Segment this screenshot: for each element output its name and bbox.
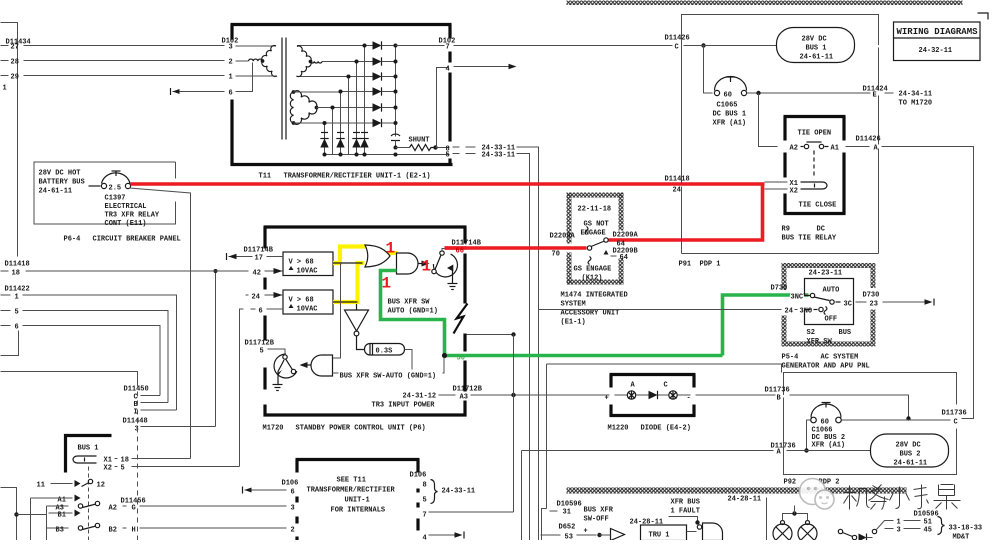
wire pin4 off-page arrow [454,66,512,68]
svg-text:24: 24 [252,294,260,302]
wire C1066 to pin C [842,419,951,421]
svg-text:(E1-1): (E1-1) [561,319,586,327]
svg-text:BUS XFR: BUS XFR [584,507,614,515]
wire M1220 to P92 pin B [696,394,776,396]
svg-text:1 FAULT: 1 FAULT [671,508,700,516]
svg-text:A2: A2 [790,145,798,153]
svg-text:8: 8 [423,482,427,490]
comparator 2 V>68 [283,290,333,314]
svg-text:3: 3 [897,527,901,535]
svg-text:10VAC: 10VAC [297,268,318,276]
diode D1 [373,41,382,49]
watermark text 机务小小桌 [844,485,961,510]
svg-text:6: 6 [229,90,233,98]
wire 29 to D102-1 [24,75,225,77]
WIRING DIAGRAMS title box [894,22,981,61]
OR gate U1 [365,245,390,267]
delay output wire [405,350,413,374]
svg-text:XFR SW: XFR SW [807,338,833,346]
inverter U3 [345,310,369,331]
secondary wye winding T11 [297,45,365,47]
svg-text:B2: B2 [109,527,117,535]
primary neutral pin6 [236,63,253,92]
svg-text:TRANSFORMER/RECTIFIER UNIT-1 (: TRANSFORMER/RECTIFIER UNIT-1 (E2-1) [284,173,431,181]
svg-text:TR3 XFR RELAY: TR3 XFR RELAY [105,212,160,220]
svg-text:+: + [605,395,609,403]
svg-text:G: G [132,505,136,513]
svg-text:28V DC: 28V DC [802,36,827,44]
page corner mark top-right [978,13,989,20]
mech linkage dashed BUS1 [88,467,90,541]
pin 28 [1,60,9,62]
wire from breaker to vertical x190 [130,188,191,459]
svg-text:BUS 2: BUS 2 [900,451,921,459]
svg-text:BUS TIE RELAY: BUS TIE RELAY [782,235,837,243]
circuit breaker C1065 60A [714,90,719,95]
svg-text:5: 5 [446,152,450,160]
AND gate U2 [397,253,419,274]
pin4 internal wire [437,68,449,148]
svg-text:TRANSFORMER/RECTIFIER: TRANSFORMER/RECTIFIER [307,487,396,495]
transformer core [281,38,283,140]
misc bottom verticals [794,506,796,509]
svg-text:DIODE (E4-2): DIODE (E4-2) [641,425,691,433]
rectifier vertical drop wires [364,46,366,155]
svg-text:24-61-11: 24-61-11 [800,54,834,62]
BUS XFR SW-AUTO text [339,370,443,379]
green output wire pin 50 [445,354,723,358]
junction dots on drops [363,44,367,48]
yellow highlight comp1 output [333,247,369,264]
svg-text:XFR (A1): XFR (A1) [812,442,846,450]
svg-text:D106: D106 [410,472,427,480]
svg-text:12: 12 [97,482,105,490]
svg-text:64: 64 [620,254,628,262]
R9 relay box [784,115,846,118]
svg-text:50: 50 [457,355,465,363]
internal wire and symbols [615,394,691,396]
svg-text:3NO: 3NO [800,308,813,316]
svg-text:24-33-11: 24-33-11 [442,488,476,496]
svg-text:3: 3 [229,44,233,52]
left verticals bottom [1,488,17,541]
svg-text:1: 1 [382,275,392,293]
svg-text:E: E [873,92,877,100]
red highlighted wire main run [131,182,765,186]
svg-text:5: 5 [260,348,264,356]
svg-text:24-34-11: 24-34-11 [899,91,933,99]
svg-text:BUS XFR SW-AUTO (GND=1): BUS XFR SW-AUTO (GND=1) [340,373,437,381]
svg-text:D652: D652 [559,524,576,532]
svg-text:3: 3 [135,426,139,434]
svg-text:P6-4: P6-4 [64,236,81,244]
wire D102-6 with left arrow [173,91,225,93]
svg-text:TIE CLOSE: TIE CLOSE [799,202,837,210]
svg-text:29: 29 [11,74,19,82]
relay symbol lower left [274,354,297,378]
svg-text:X2: X2 [790,188,798,196]
svg-text:D11418: D11418 [665,176,690,184]
diode row feeds [365,45,373,47]
wire G to D106-3 [140,505,287,507]
svg-text:1: 1 [229,74,233,82]
lower AND gate U4 (mirrored) [311,355,333,376]
svg-text:3: 3 [291,505,295,513]
secondary delta winding T11 [290,92,293,123]
pin 7 wire [429,511,514,513]
black wires under yellow [333,262,363,264]
svg-text:4: 4 [446,66,450,74]
wire H to D106-2 [140,527,287,529]
wire A down right side to D11736 C [882,147,974,419]
wire to D11450 connector [1,372,138,387]
svg-text:M1720: M1720 [263,425,284,433]
28V DC BUS 2 oval [871,434,949,467]
P6-4 circuit breaker panel box [34,162,176,224]
ground for top relay [452,270,454,284]
M1474 hatched box [567,193,572,244]
circuit breaker C1066 [811,417,817,423]
svg-text:24: 24 [785,308,793,316]
circuit breaker C1397 2.5A [89,185,101,187]
bottom commutating diodes [320,139,328,148]
wire A3 to M1220 [471,394,610,396]
svg-text:1: 1 [3,85,7,93]
svg-text:GENERATOR AND APU PNL: GENERATOR AND APU PNL [782,363,870,371]
svg-text:AC SYSTEM: AC SYSTEM [821,354,859,362]
svg-text:D11712B: D11712B [453,386,483,394]
svg-text:2: 2 [291,527,295,535]
svg-text:FOR INTERNALS: FOR INTERNALS [331,507,386,515]
diode D4 [373,87,382,95]
svg-text:31: 31 [563,509,571,517]
bottom hatched border 24-28-11 [567,488,907,494]
svg-text:+: + [584,528,588,536]
svg-text:DC BUS 1: DC BUS 1 [713,111,747,119]
svg-text:24-31-12: 24-31-12 [403,393,437,401]
svg-text:BUS XFR SW: BUS XFR SW [388,299,431,307]
svg-text:-: - [687,395,691,403]
svg-text:XFR BUS: XFR BUS [671,499,700,507]
svg-text:C: C [664,382,668,390]
svg-text:GS ENGAGE: GS ENGAGE [574,266,612,274]
3NO contact [776,309,782,311]
svg-text:45: 45 [924,527,932,535]
svg-text:2: 2 [229,59,233,67]
AND output arrow [419,263,426,265]
svg-text:A1: A1 [831,145,839,153]
watermark logo [800,479,835,510]
svg-text:17: 17 [255,255,263,263]
svg-text:P5-4: P5-4 [782,354,799,362]
svg-text:42: 42 [253,270,261,278]
svg-text:V > 68: V > 68 [289,259,314,267]
stub at y334 to vertical x513 [467,334,514,336]
svg-text:D11736: D11736 [771,443,796,451]
svg-text:5: 5 [121,465,125,473]
svg-text:22-11-18: 22-11-18 [578,206,612,214]
wire C1065 to D11424 E [747,92,871,94]
svg-text:D10596: D10596 [914,511,939,519]
svg-text:XFR (A1): XFR (A1) [713,120,747,128]
TRU 1 box [641,525,687,541]
mech linkage dashed [813,151,815,178]
svg-text:1: 1 [897,519,901,527]
svg-text:D730: D730 [771,285,788,293]
bottom bus [325,154,450,156]
pin 27 [1,45,9,47]
svg-text:D11736: D11736 [765,387,790,395]
lamp A1 [773,524,792,543]
red wire X1 drop to GS switch [609,186,763,241]
S2 XFR SW hatched box P5-4 [782,263,876,268]
svg-text:5: 5 [15,309,19,317]
svg-text:ACCESSORY UNIT: ACCESSORY UNIT [561,310,620,318]
svg-text:53: 53 [565,534,573,541]
svg-text:TIE OPEN: TIE OPEN [798,130,832,138]
svg-text:66: 66 [456,248,464,256]
S2 inner box [805,279,854,325]
svg-text:5: 5 [423,497,427,505]
svg-text:STANDBY POWER CONTROL UNIT (P6: STANDBY POWER CONTROL UNIT (P6) [296,425,426,433]
svg-text:70: 70 [552,251,560,259]
wire P5-4 outer to P92 top jog [547,364,782,373]
svg-text:10VAC: 10VAC [297,306,318,314]
svg-text:BUS: BUS [839,329,852,337]
svg-text:23: 23 [870,301,878,309]
svg-text:TR3 INPUT POWER: TR3 INPUT POWER [372,402,436,410]
diode D3 [373,72,382,80]
svg-text:6: 6 [291,489,295,497]
svg-text:SW-OFF: SW-OFF [584,516,609,524]
svg-text:D11714B: D11714B [452,240,482,248]
svg-text:D10596: D10596 [557,501,582,509]
svg-text:ELECTRICAL: ELECTRICAL [105,203,147,211]
wire oval junction down to C1065 [704,46,713,94]
BUS 1 relay box [66,436,112,473]
green wire from AND lower input [381,271,445,356]
yellow highlight comp2 output [333,263,365,302]
svg-text:51: 51 [924,519,932,527]
svg-text:60: 60 [724,92,732,100]
break lightning symbol [454,304,468,334]
pin8 wire to 24-33-11 [453,146,460,148]
svg-text:(K12): (K12) [582,275,603,283]
wire 27 to D102-3 [24,45,225,47]
svg-text:24-32-11: 24-32-11 [919,47,953,55]
svg-text:BUS 1: BUS 1 [78,445,99,453]
0.3S time delay [357,336,365,350]
svg-text:SYSTEM: SYSTEM [561,301,586,309]
delta output wires [294,91,341,93]
svg-text:D11714B: D11714B [244,247,274,255]
svg-text:A2: A2 [109,505,117,513]
svg-text:6: 6 [15,324,19,332]
svg-text:D11450: D11450 [124,386,149,394]
svg-text:1: 1 [386,240,396,258]
P91 PDP1 box [682,15,879,185]
svg-text:P92: P92 [784,479,797,487]
svg-text:C: C [675,44,679,52]
yellow OR output segment [387,251,398,255]
pin 4 wire arrow [429,534,459,536]
lamp feed wires [783,514,808,521]
pin5 wire to 24-33-11 [453,153,460,155]
svg-text:24-28-11: 24-28-11 [728,496,762,504]
svg-text:D11422: D11422 [5,286,30,294]
svg-text:11: 11 [37,482,45,490]
capacitor symbol on bus [391,134,400,136]
svg-text:0.3S: 0.3S [376,348,393,356]
wire D11418-18 to pin42 [26,270,249,272]
svg-text:24-61-11: 24-61-11 [39,188,73,196]
vertical bus x215 (D11418-18 to D11448-3) [215,271,217,427]
svg-text:CONT (E11): CONT (E11) [105,220,147,228]
svg-text:D11418: D11418 [5,261,30,269]
diode D2 [373,57,382,65]
primary wye winding T11 [236,45,277,47]
P92 PDP2 box [784,373,957,405]
svg-text:SEE T11: SEE T11 [337,477,366,485]
lamp A2 [798,524,817,543]
svg-text:MD&T: MD&T [953,534,970,541]
T11 box [231,23,452,26]
wire pin7 to D11426C [396,45,445,47]
svg-text:M1474 INTEGRATED: M1474 INTEGRATED [561,292,628,300]
svg-text:BATTERY BUS: BATTERY BUS [39,179,85,187]
svg-text:D11736: D11736 [942,410,967,418]
top hatched strip remnant [567,1,963,6]
svg-text:28V DC HOT: 28V DC HOT [39,170,81,178]
M1720 standby power control unit box [264,225,467,228]
svg-text:BUS 1: BUS 1 [806,45,827,53]
fault wire into gate [669,517,698,522]
switch contacts bottom right [838,529,842,533]
svg-text:H: H [132,527,136,535]
relay symbol TR3 XFR (top) [433,254,457,277]
svg-text:X2: X2 [104,465,112,473]
wire junction down to A2 [759,93,778,147]
svg-text:D730: D730 [863,292,880,300]
svg-text:6: 6 [259,308,263,316]
svg-text:D2209A: D2209A [613,232,639,240]
svg-text:18: 18 [12,270,20,278]
svg-text:DC: DC [817,226,825,234]
lower AND output arrow [304,364,311,366]
svg-text:1: 1 [422,258,432,276]
svg-text:OFF: OFF [825,316,838,324]
BUS1 relay coil [73,456,97,463]
lower AND inputs [333,358,445,374]
amp triangle bottom cut [611,529,625,541]
wire 28 to D102-2 [24,60,225,62]
svg-text:24-23-11: 24-23-11 [809,270,843,278]
diode D6 [373,119,382,127]
svg-text:3C: 3C [844,301,852,309]
svg-text:D11426: D11426 [665,35,690,43]
svg-text:C1397: C1397 [105,195,126,203]
svg-text:18: 18 [121,457,129,465]
vertical bus x529 from pin5 continuation [517,154,530,541]
svg-text:24: 24 [673,187,681,195]
svg-text:CIRCUIT BREAKER PANEL: CIRCUIT BREAKER PANEL [93,236,181,244]
svg-text:SHUNT: SHUNT [409,137,430,145]
NAND gate bottom [703,523,723,541]
pin 29 [1,75,9,77]
ground lower relay [278,360,284,385]
svg-text:S2: S2 [807,329,815,337]
svg-text:AUTO: AUTO [823,287,840,295]
vertical bus x239 (M1720-6 to BUS1 X2) [240,309,244,467]
svg-text:M1220: M1220 [608,425,629,433]
svg-text:D11448: D11448 [123,418,148,426]
svg-text:33-18-33: 33-18-33 [949,525,983,533]
svg-text:2.5: 2.5 [109,185,122,193]
A wire drop at x521 [521,451,523,541]
svg-text:C1065: C1065 [717,102,738,110]
svg-text:28V DC: 28V DC [896,442,921,450]
svg-text:7: 7 [423,512,427,520]
svg-text:WIRING DIAGRAMS: WIRING DIAGRAMS [897,27,979,37]
svg-text:D11426: D11426 [856,136,881,144]
svg-text:AUTO (GND=1): AUTO (GND=1) [388,308,438,316]
svg-text:1: 1 [15,294,19,302]
corner bracket top-left [1,23,18,257]
comparator 1 V>68 [283,252,333,276]
24-28-11 hatch label wire [766,498,768,541]
svg-text:D11712B: D11712B [245,340,275,348]
svg-text:R9: R9 [782,226,790,234]
svg-text:28: 28 [11,59,19,67]
brace 8/5 to 24-33-11 [431,480,438,504]
svg-text:24-61-11: 24-61-11 [894,460,928,468]
svg-text:ENGAGE: ENGAGE [581,230,606,238]
svg-text:D11456: D11456 [121,498,146,506]
wire B across and down [790,395,909,419]
svg-text:P91 PDP 1: P91 PDP 1 [679,261,721,269]
diode D5 [373,103,382,111]
svg-text:D2209A: D2209A [550,233,576,241]
green wire rise to S2 3NC [723,295,809,356]
SEE T11 box [296,458,420,461]
svg-text:4: 4 [423,535,427,541]
svg-text:X1: X1 [104,457,112,465]
stub wire left bottom [1,331,19,356]
svg-text:24-33-11: 24-33-11 [482,152,516,160]
svg-text:7: 7 [446,44,450,52]
vertical bus x538 from pin8 continuation [517,147,539,541]
svg-text:60: 60 [821,419,829,427]
28V DC BUS 1 oval [777,28,855,63]
small ticks above commutating diodes [321,132,328,134]
svg-text:TRU 1: TRU 1 [649,532,670,540]
svg-text:T11: T11 [259,173,272,181]
cathode bus [395,46,397,137]
svg-text:A3: A3 [460,394,468,402]
svg-text:C: C [954,419,958,427]
svg-text:3NC: 3NC [791,294,804,302]
red wire GS switch to M1720 pin66 [445,246,587,250]
wire 3NO-24 to vertical x538 [539,309,776,311]
svg-text:UNIT-1: UNIT-1 [345,497,370,505]
svg-text:D106: D106 [282,480,299,488]
pins 24 / 6 [246,294,249,296]
svg-text:27: 27 [11,44,19,52]
comp1 drop wire to lower AND [333,263,341,358]
svg-text:V > 68: V > 68 [289,297,314,305]
X1 X2 coil stub wires [765,181,788,183]
M1220 diode assembly box [610,373,696,376]
